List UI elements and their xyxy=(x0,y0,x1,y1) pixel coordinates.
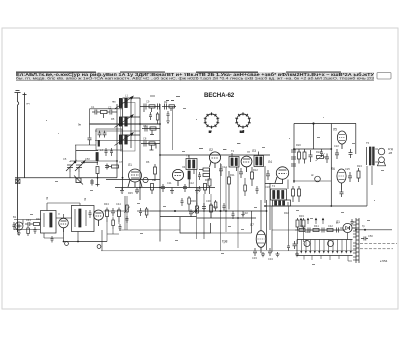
svg-text:С6: С6 xyxy=(143,124,147,128)
wire long verticals center xyxy=(197,163,239,251)
detector tube V5 xyxy=(275,167,289,184)
IF transformer T1 xyxy=(186,155,197,174)
svg-text:С34: С34 xyxy=(268,257,273,261)
output transformer T5 xyxy=(367,147,375,165)
svg-text:С16: С16 xyxy=(265,185,270,189)
resistor R34 vertical xyxy=(302,218,305,230)
tuning gang C5a xyxy=(66,161,76,173)
wire mixer bottom bus xyxy=(106,179,160,181)
capacitor C41 xyxy=(111,208,115,216)
switch wafer circle 2 xyxy=(328,241,334,247)
svg-text:R34: R34 xyxy=(305,230,310,234)
wire bottom-right bus xyxy=(265,205,367,207)
svg-text:R20: R20 xyxy=(296,143,301,147)
RC group D (row3) xyxy=(141,141,160,151)
wire detector links xyxy=(265,166,282,230)
capacitor C1b xyxy=(104,110,118,119)
switch contact fingers xyxy=(301,240,352,253)
wire audio bus left ext xyxy=(137,210,150,212)
pot arrow over R22 xyxy=(316,154,325,162)
wire row3 xyxy=(95,140,160,142)
resistor R7 vertical small xyxy=(151,184,154,195)
svg-text:кг: кг xyxy=(209,130,211,134)
node dot B+ xyxy=(312,122,314,124)
svg-text:Л2: Л2 xyxy=(209,148,213,152)
svg-text:R41: R41 xyxy=(314,224,319,228)
capacitor C15 xyxy=(239,168,243,178)
svg-text:С5: С5 xyxy=(63,157,67,161)
tube V3 (detector) xyxy=(241,156,252,172)
switch right bus xyxy=(356,218,359,263)
capacitor C52 xyxy=(139,208,142,216)
tube socket bottom-view Л1 xyxy=(204,112,219,133)
IF transformer T3 xyxy=(254,152,264,167)
svg-text:С12: С12 xyxy=(189,181,194,185)
resistor R14 horizontal xyxy=(203,174,210,177)
ground G7 xyxy=(295,252,299,257)
oscillator coil L4 xyxy=(76,151,98,166)
resistor row R20 xyxy=(298,149,301,164)
wire cathode bus xyxy=(115,187,215,189)
antenna W1 xyxy=(15,91,27,233)
ground G2 xyxy=(170,188,174,194)
input box left edge xyxy=(89,109,91,138)
resistor R41 vertical xyxy=(106,208,109,223)
legend small box at right end xyxy=(377,73,391,80)
detector column parts: capacitor C13b xyxy=(198,172,201,180)
svg-text:С14: С14 xyxy=(222,165,227,169)
resistor R46 vertical xyxy=(27,226,30,236)
wire IF bus xyxy=(160,154,270,156)
svg-text:С40: С40 xyxy=(300,224,305,228)
svg-text:Л3: Л3 xyxy=(252,149,256,153)
wire jack bus xyxy=(294,180,331,182)
resistor R1a xyxy=(101,110,108,113)
switch sub-rail ticks xyxy=(304,256,352,262)
ground Gc xyxy=(198,186,201,191)
capacitor C25 xyxy=(348,172,352,182)
node jack circle A xyxy=(97,245,101,249)
svg-text:С2: С2 xyxy=(108,106,112,110)
svg-text:Л5: Л5 xyxy=(333,128,337,132)
capacitor C35 small right xyxy=(293,241,297,249)
svg-text:С25: С25 xyxy=(345,167,350,171)
capacitor C9c xyxy=(167,111,170,119)
wire row1 to RC xyxy=(90,123,161,125)
resistor R6 vertical xyxy=(154,164,157,181)
svg-text:Гр8: Гр8 xyxy=(222,240,228,244)
resistor R22 horizontal xyxy=(317,156,328,159)
capacitor C12 xyxy=(183,184,187,192)
svg-text:С50: С50 xyxy=(368,234,373,238)
capacitor C9b xyxy=(149,112,152,120)
rectifier diode circle D1 xyxy=(343,223,352,232)
resistor R10 vertical xyxy=(208,168,211,194)
capacitor C30 xyxy=(202,203,206,212)
svg-text:Л: Л xyxy=(58,212,60,216)
wire right lower vertical xyxy=(371,166,373,185)
svg-text:-28: -28 xyxy=(388,151,392,155)
capacitor C14 xyxy=(219,164,223,176)
frontend cap c49 xyxy=(119,224,122,231)
switch bottom rail xyxy=(297,255,353,257)
capacitor C7 xyxy=(105,164,109,170)
svg-text:С7: С7 xyxy=(119,160,123,164)
RC group B (row1 right2) xyxy=(162,104,176,112)
loudspeaker Гр1 xyxy=(378,148,386,166)
resistor R31 vertical xyxy=(210,203,213,218)
svg-text:Л: Л xyxy=(46,197,48,201)
capacitor C43 xyxy=(351,219,354,226)
IF deco dashes xyxy=(166,100,174,102)
svg-text:R45: R45 xyxy=(128,191,133,195)
switch top rail xyxy=(297,239,353,241)
frontend wire links2 xyxy=(107,211,125,242)
ground Gb xyxy=(166,119,169,123)
detector area: capacitor C17 xyxy=(256,186,259,194)
capacitor C47 xyxy=(51,236,54,243)
svg-text:С11: С11 xyxy=(167,181,172,185)
svg-text:С44: С44 xyxy=(116,202,121,206)
diode leads xyxy=(340,228,356,240)
svg-text:R43: R43 xyxy=(104,202,109,206)
capacitor C45 xyxy=(13,222,16,230)
ground G8 xyxy=(241,211,244,217)
frontend tube Vf1 xyxy=(59,218,69,232)
svg-text:С8: С8 xyxy=(143,137,147,141)
capacitor C33 xyxy=(253,248,257,256)
wire bottom verticals xyxy=(64,230,103,251)
rectifier tube V8 xyxy=(256,231,266,253)
wire lower-left link xyxy=(75,144,96,146)
capacitor C51 xyxy=(126,216,129,223)
capacitor C2a xyxy=(98,131,102,138)
wire frontend bottom bus xyxy=(63,241,107,243)
capacitor C11 xyxy=(161,184,165,192)
capacitor C10 xyxy=(135,188,139,195)
svg-text:Л1: Л1 xyxy=(128,163,132,167)
capacitor C8 pair below xyxy=(90,179,100,187)
svg-text:R30: R30 xyxy=(191,199,196,203)
capacitor C16 xyxy=(266,170,270,180)
resistor R13 horizontal xyxy=(199,168,210,171)
tuned cell coil L1 xyxy=(115,96,134,109)
volume pot R30 xyxy=(193,203,199,213)
mid column verticals x197-211 upper xyxy=(197,194,204,239)
wire mains right 1 xyxy=(357,229,393,231)
svg-text:R40: R40 xyxy=(36,217,41,221)
mixer tube V1 xyxy=(128,169,142,187)
RC group C (row2) xyxy=(142,126,160,135)
capacitor mains C50 xyxy=(361,237,368,241)
resistor R40 xyxy=(34,223,40,226)
resistor R51 vertical xyxy=(145,207,148,218)
capacitor C26 xyxy=(340,190,344,197)
output transformer box T6 xyxy=(273,200,291,206)
band filter box 2 xyxy=(72,206,95,232)
lower input box xyxy=(96,129,122,150)
svg-text:R24: R24 xyxy=(357,164,362,168)
capacitor C34 xyxy=(268,248,272,256)
switch wafer circle 1 xyxy=(304,241,310,247)
wire r33 extensions xyxy=(272,230,304,244)
resistor R21 xyxy=(303,149,306,164)
resistor R2b vertical xyxy=(156,112,159,124)
wire mains right 3 dashed with arrow xyxy=(360,248,393,250)
switch RC row above xyxy=(295,228,345,233)
resistor R11 vertical xyxy=(228,171,231,210)
wire vertical x172 xyxy=(172,107,174,151)
capacitor C19 xyxy=(223,203,226,211)
output tube V7 (lower) xyxy=(337,169,346,190)
svg-text:В1: В1 xyxy=(13,215,17,219)
volume column vertical xyxy=(126,196,128,230)
node dots audio bus xyxy=(174,210,176,212)
svg-text:R12: R12 xyxy=(253,168,258,172)
svg-text:С33: С33 xyxy=(252,256,257,260)
svg-text:С42: С42 xyxy=(328,224,333,228)
resistor R8 vertical small xyxy=(204,184,207,195)
wire lower-left drop xyxy=(75,145,77,151)
wire lower link y230 xyxy=(119,229,180,231)
frontend box2 extra caps xyxy=(89,210,92,218)
wire right block verticals xyxy=(294,124,356,207)
mid bottom extra: resistor R47 xyxy=(188,196,191,211)
center bus extra: capacitor C18 xyxy=(232,211,235,219)
IF transformer T4 xyxy=(271,189,287,200)
phone jack xyxy=(315,176,321,182)
wire gang link xyxy=(70,161,117,178)
svg-text:Л7: Л7 xyxy=(250,223,254,227)
resistor R12 vertical xyxy=(251,167,254,186)
capacitor C1a xyxy=(92,110,101,115)
padder trimmer on AV bus xyxy=(74,176,83,185)
resistor R16 vertical xyxy=(298,186,301,202)
upper caps C7b group xyxy=(105,148,114,156)
speaker frame box xyxy=(180,217,211,233)
capacitor C23 xyxy=(349,149,353,158)
frontend r48 xyxy=(112,218,115,229)
RC group A (row1 right) xyxy=(140,104,160,113)
resistor R17 vertical xyxy=(244,182,247,196)
svg-text:к-554: к-554 xyxy=(380,259,388,263)
tuned cell coil L3 xyxy=(115,133,134,146)
wire long bottom bus xyxy=(101,250,356,252)
left small caps column (V5 area) xyxy=(291,150,296,166)
wire v8 columns xyxy=(252,200,273,252)
legend text row (parts list strip) xyxy=(16,71,374,81)
svg-text:R11: R11 xyxy=(230,173,235,177)
grid cap small circle xyxy=(143,177,148,182)
svg-text:п.б: п.б xyxy=(240,130,244,134)
wire right-mid vertical x288 xyxy=(288,206,290,246)
capacitor C20b xyxy=(320,149,323,157)
wire row2 xyxy=(95,130,140,132)
node mains dot xyxy=(364,229,366,231)
wire B+ top rail xyxy=(294,123,356,125)
wire det links xyxy=(245,178,288,206)
svg-text:С1: С1 xyxy=(91,105,95,109)
resistor R15 vertical xyxy=(292,186,295,202)
svg-text:Л4: Л4 xyxy=(268,160,272,164)
wire out bus xyxy=(197,217,257,219)
svg-text:R33: R33 xyxy=(299,214,304,218)
resistor R33 vertical xyxy=(296,218,299,230)
capacitor C21 xyxy=(325,154,329,164)
ground Gf xyxy=(17,230,20,235)
svg-text:Л: Л xyxy=(84,198,86,202)
svg-text:R6: R6 xyxy=(146,160,150,164)
wire frontend bus xyxy=(14,229,40,231)
ground G1 xyxy=(120,188,124,194)
tuning gang C5b xyxy=(75,161,85,173)
resistor R4 xyxy=(108,165,119,168)
resistor R42 vertical xyxy=(118,208,121,223)
wire audio bus2 xyxy=(160,216,197,218)
wire frontend left links xyxy=(14,220,64,239)
wire audio bus xyxy=(150,210,267,212)
heater wire row xyxy=(17,222,20,235)
capacitor C20 xyxy=(309,150,313,162)
svg-text:Л4: Л4 xyxy=(182,165,186,169)
svg-text:ню: ню xyxy=(112,100,116,104)
node jack circle B xyxy=(65,242,69,246)
wire row links xyxy=(294,148,331,150)
svg-text:R10: R10 xyxy=(205,178,210,182)
svg-text:нч: нч xyxy=(27,102,31,106)
svg-text:С41: С41 xyxy=(26,218,31,222)
capacitor C2 on left edge xyxy=(88,138,92,145)
svg-text:Л6: Л6 xyxy=(331,167,335,171)
ground G3 xyxy=(195,188,199,194)
frontend tube Vf2 xyxy=(94,210,104,226)
switch upper arrows row xyxy=(300,218,324,227)
wire ladder verticals xyxy=(117,98,160,242)
resistor R24 vertical xyxy=(357,168,360,182)
tube V4 (det2) xyxy=(172,169,183,186)
output tube V6 xyxy=(337,131,346,149)
capacitor C22 xyxy=(335,149,339,159)
wire frontend top links xyxy=(47,196,125,218)
svg-text:R5: R5 xyxy=(111,117,115,121)
scan speck noise xyxy=(30,96,384,265)
wire box to tube xyxy=(211,232,252,234)
frontend: input diode circle xyxy=(15,222,23,230)
wire nfb vertical xyxy=(366,166,368,206)
band filter box 1 xyxy=(41,211,57,234)
tube socket bottom-view Л2 xyxy=(235,112,250,133)
svg-text:R9: R9 xyxy=(152,178,156,182)
coil L2a in lower box xyxy=(98,140,100,147)
svg-text:С9: С9 xyxy=(146,100,150,104)
bus contacts xyxy=(353,222,357,260)
IF transformer T2 xyxy=(229,153,239,171)
coil L5 vertical xyxy=(188,171,190,188)
tuned cell coil L2 xyxy=(115,115,134,128)
ground G5 xyxy=(261,252,265,257)
capacitor C2b xyxy=(103,131,107,138)
wire AV bus xyxy=(15,177,117,179)
svg-text:Д1: Д1 xyxy=(336,220,340,224)
resistor R3 vertical xyxy=(96,167,99,185)
tiny value labels scatter xyxy=(13,94,373,262)
wire mains right 2 dashed xyxy=(360,243,397,245)
ladder shield box xyxy=(121,103,136,152)
svg-text:С30: С30 xyxy=(206,199,211,203)
svg-text:С22: С22 xyxy=(334,144,339,148)
capacitor C46 xyxy=(34,227,37,234)
ground G6 xyxy=(276,252,280,257)
capacitor C36 at x288 bottom xyxy=(287,246,290,251)
input box top edge xyxy=(90,108,123,110)
tube V2 (IF amp) xyxy=(209,152,220,168)
capacitor C31 xyxy=(189,210,193,218)
wire speaker links xyxy=(375,149,378,162)
svg-text:ВЕСНА-62: ВЕСНА-62 xyxy=(204,92,235,99)
connector jack on AV bus xyxy=(16,179,21,184)
capacitor C48 xyxy=(181,198,184,206)
power switch comb assembly xyxy=(297,240,353,256)
volume pot R50 xyxy=(124,205,130,213)
resistor R18 vertical xyxy=(214,200,217,211)
capacitor C40 xyxy=(25,222,33,226)
svg-text:С5б: С5б xyxy=(85,157,90,161)
